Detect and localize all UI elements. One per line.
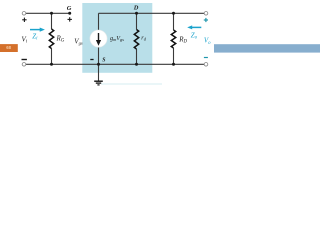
svg-text:G: G (67, 5, 72, 12)
svg-text:Zi: Zi (32, 32, 38, 41)
svg-text:Vo: Vo (204, 37, 211, 46)
svg-text:68: 68 (6, 45, 11, 50)
svg-text:D: D (133, 4, 139, 11)
svg-text:RG: RG (56, 35, 65, 44)
svg-text:S: S (102, 57, 105, 63)
svg-text:Vgs: Vgs (74, 38, 83, 46)
svg-text:Zo: Zo (191, 31, 198, 40)
svg-text:RD: RD (178, 35, 187, 44)
svg-text:Vi: Vi (22, 36, 28, 45)
